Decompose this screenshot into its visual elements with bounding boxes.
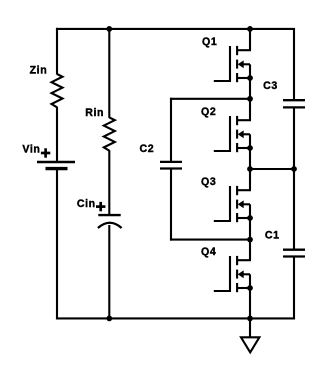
node bottom-chain junction [247,316,253,322]
svg-text:Q3: Q3 [201,176,216,188]
wire left branch lower [56,169,58,320]
node top-Rin junction [106,26,112,32]
transistor Q4 [214,256,251,292]
wire right branch upper [293,29,295,100]
capacitor Cin flat plate [98,214,120,216]
node Q2 source-body junction [247,145,253,151]
svg-text:C1: C1 [265,230,280,242]
capacitor C1 [283,249,305,251]
wire Rin branch middle [108,150,110,214]
wire top rail to Q1 drain [249,29,251,50]
label Vin plus sign [41,152,50,155]
resistor Rin [104,117,115,150]
ground [241,337,259,352]
svg-text:Cin: Cin [77,198,96,210]
svg-text:C2: C2 [140,143,155,155]
resistor Zin [52,74,63,107]
wire right branch middle [293,108,295,249]
wire Q2-Q3 node to C3-C1 node [250,168,294,170]
wire Q3-Q4 node to C2 bottom [170,239,250,241]
node Q3 source-body junction [247,215,253,221]
node Q1-Q2 junction to C2 [247,96,253,102]
svg-text:Vin: Vin [22,144,40,156]
wire left branch middle [56,107,58,161]
wire C2 branch lower [170,169,172,241]
svg-text:C3: C3 [263,80,278,92]
svg-text:Zin: Zin [30,65,48,77]
wire right branch lower [293,257,295,318]
capacitor C2 [160,161,182,163]
capacitor Cin curved plate [98,223,122,228]
wire C2 branch upper [170,98,172,161]
node Q4 source-body junction [247,285,253,291]
wire Cin to bottom rail [108,225,110,318]
battery Vin positive plate [37,161,75,163]
wire Q4 source to bottom rail [249,288,251,318]
wire left branch upper [56,28,58,75]
capacitor C3 [283,99,305,101]
node top-chain junction [247,26,253,32]
transistor Q2 [214,116,251,152]
wire Q3 source to Q4 drain [249,218,251,260]
transistor Q1 [214,46,251,82]
wire top rail [56,28,295,30]
node bottom-Cin junction [106,316,112,322]
wire Rin branch upper [108,29,110,118]
svg-text:Q2: Q2 [201,106,216,118]
svg-text:Q1: Q1 [202,36,217,48]
node C3-C1 junction [291,166,297,172]
wire ground stub [249,318,251,337]
wire Q1-Q2 node to C2 top [170,98,250,100]
transistor Q3 [214,186,251,222]
wire Q2 source to Q3 drain [249,148,251,190]
wire bottom rail [56,317,295,319]
label Cin plus sign [96,205,105,208]
svg-text:Rin: Rin [85,107,104,119]
wire Q1 source to Q2 drain [249,78,251,120]
battery Vin negative plate [46,167,68,170]
node Q1 source-body junction [247,75,253,81]
node Q2-Q3 junction [247,166,253,172]
node Q3-Q4 junction to C2 [247,237,253,243]
svg-text:Q4: Q4 [201,246,216,258]
